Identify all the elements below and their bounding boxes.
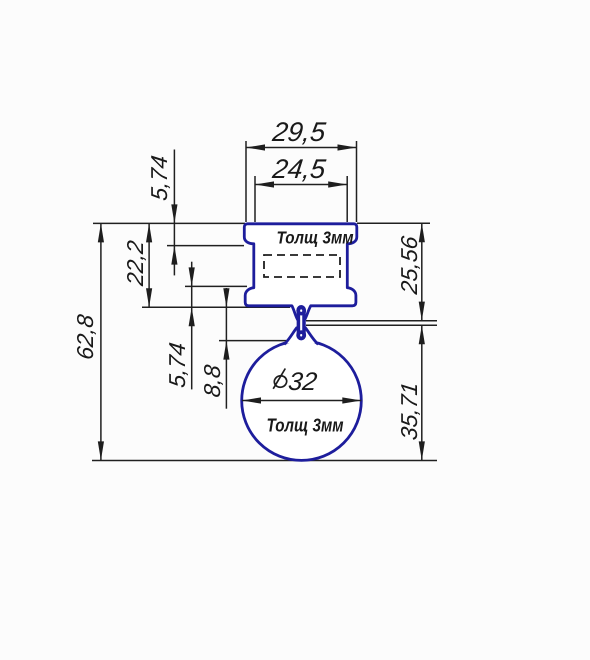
dimension line 29,5 bbox=[246, 147, 357, 149]
dimension line diameter inside disc bbox=[242, 400, 361, 402]
extension line: 29,5 left vertical bbox=[245, 141, 247, 222]
arrow diameter right bbox=[342, 397, 361, 403]
arrow 5,74 lower, up onto y307.3 bbox=[189, 307, 195, 326]
arrow 25,56 bottom bbox=[419, 302, 425, 321]
diameter symbol bbox=[273, 369, 288, 389]
svg-text:22,2: 22,2 bbox=[122, 239, 148, 288]
dimension line 25,56 vertical bbox=[421, 223, 423, 320]
extension line: 29,5 right vertical bbox=[356, 141, 358, 222]
arrow 62,8 top bbox=[98, 223, 104, 242]
arrow 62,8 bottom bbox=[98, 441, 104, 460]
svg-text:24,5: 24,5 bbox=[270, 153, 328, 184]
extension line: block side step y286 bbox=[185, 285, 247, 287]
arrow 5,74 upper, up onto y245.6 bbox=[171, 246, 177, 265]
svg-text:Толщ 3мм: Толщ 3мм bbox=[267, 415, 344, 436]
svg-text:62,8: 62,8 bbox=[72, 313, 98, 361]
arrow 5,74 lower, down onto y286.4 bbox=[189, 267, 195, 286]
extension line: block top, right side bbox=[357, 222, 430, 224]
arrow 29,5 left bbox=[246, 144, 265, 150]
arrow 8,8 down onto y307.3 bbox=[223, 288, 229, 307]
hinge pin lower bbox=[298, 332, 304, 338]
dimension line 24,5 bbox=[255, 184, 347, 186]
svg-text:8,8: 8,8 bbox=[199, 363, 225, 398]
hidden-line dashed rectangle inside block bbox=[264, 255, 340, 277]
svg-text:25,56: 25,56 bbox=[396, 235, 422, 297]
part outline: lower disc bbox=[242, 341, 362, 461]
svg-text:Толщ 3мм: Толщ 3мм bbox=[277, 228, 354, 248]
arrow diameter left bbox=[242, 397, 261, 403]
arrow 24,5 left bbox=[255, 181, 274, 187]
extension line: circle top y340 bbox=[219, 340, 288, 342]
extension line: 5,74 upper bottom bbox=[167, 245, 244, 247]
dimension line 22,2 vertical bbox=[148, 223, 150, 307]
svg-text:5,74: 5,74 bbox=[146, 154, 172, 202]
svg-text:5,74: 5,74 bbox=[164, 341, 190, 389]
dimension line 35,71 vertical bbox=[421, 325, 423, 460]
extension line: neck waist upper bbox=[306, 320, 437, 322]
hinge pin upper bbox=[298, 308, 304, 314]
dimension line 8,8 vertical bbox=[225, 288, 227, 409]
extension line: block bottom y307 bbox=[142, 306, 290, 308]
hinge slot link between block and disc bbox=[298, 307, 304, 339]
arrow 35,71 top bbox=[419, 325, 425, 344]
arrow 24,5 right bbox=[328, 181, 347, 187]
svg-text:35,71: 35,71 bbox=[396, 381, 422, 442]
arrow 29,5 right bbox=[338, 144, 357, 150]
arrow 22,2 top bbox=[146, 223, 152, 242]
dimension line 62,8 vertical bbox=[100, 223, 102, 460]
arrow 22,2 bottom bbox=[146, 288, 152, 307]
extension line: 24,5 left vertical bbox=[254, 176, 256, 222]
extension line: bottom y460 bbox=[92, 460, 437, 462]
extension line: 24,5 right vertical bbox=[346, 176, 348, 222]
extension line: block top, left side bbox=[93, 222, 245, 224]
part outline: upper block profile bbox=[244, 224, 356, 320]
arrow 8,8 up onto y340.6 bbox=[223, 341, 229, 360]
svg-text:32: 32 bbox=[287, 368, 319, 396]
arrow 5,74 upper, down onto y223 bbox=[171, 204, 177, 223]
svg-text:29,5: 29,5 bbox=[270, 116, 328, 147]
arrow 35,71 bottom bbox=[419, 441, 425, 460]
dimension line 5,74 lower vertical bbox=[191, 262, 193, 390]
extension line: neck waist lower bbox=[306, 324, 437, 326]
dimension line 5,74 upper vertical bbox=[173, 150, 175, 276]
arrow 25,56 top bbox=[419, 223, 425, 242]
disc top bump (joint fillet) bbox=[285, 327, 317, 343]
